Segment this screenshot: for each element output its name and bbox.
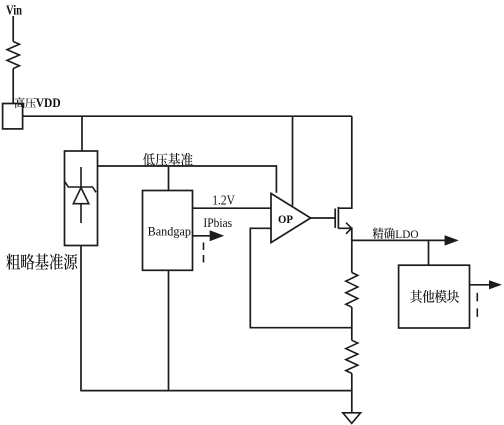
label 其他模块 (410, 290, 459, 303)
label 高压VDD (CJK part) (15, 97, 36, 108)
resistor R1 (346, 273, 358, 308)
wire IPbias output (193, 235, 212, 237)
wire rail to zener box (81, 116, 83, 151)
other module box (399, 265, 470, 328)
mosfet M1 channel bar (337, 207, 339, 229)
dashed bias line (203, 243, 205, 267)
zener diode cathode lead (80, 167, 82, 187)
wire Vin to resistor (12, 16, 14, 42)
mosfet M1 drain lead (338, 116, 351, 208)
wire rail to op-amp power (292, 116, 294, 206)
arrowhead other-module output (489, 280, 502, 289)
VDD box (3, 104, 23, 129)
svg-text:LDO: LDO (395, 227, 419, 241)
zener diode anode lead (80, 204, 82, 223)
mosfet M1 gate bar (334, 209, 336, 228)
ground symbol (343, 413, 361, 424)
svg-text:1.2V: 1.2V (212, 192, 235, 207)
wire resistor to VDD box (12, 69, 14, 104)
arrowhead IPbias (210, 230, 225, 241)
label 粗略基准源 (6, 254, 77, 270)
wire LDO output (352, 239, 445, 241)
wire Bandgap to bottom rail (168, 270, 170, 391)
wire 低压基准 net (98, 166, 277, 193)
resistor R_in (7, 42, 19, 69)
wire to Bandgap top (168, 166, 170, 191)
wire other-module output (470, 284, 490, 286)
wire LDO to other-module box (428, 240, 430, 265)
svg-text:VDD: VDD (36, 96, 61, 110)
wire 1.2V to op-amp (193, 207, 272, 209)
wire source node to R1 (351, 240, 353, 272)
Bandgap box (143, 191, 193, 271)
zener diode bar (65, 182, 96, 193)
svg-text:Vin: Vin (6, 3, 23, 18)
label 精确LDO (CJK part) (373, 228, 395, 240)
op-amp U1 (271, 193, 311, 242)
wire bottom rail (81, 390, 352, 392)
svg-text:Bandgap: Bandgap (148, 224, 191, 238)
mosfet M1 source lead (338, 228, 351, 240)
mosfet M1 source arrow (346, 223, 352, 234)
zener reference box (65, 151, 98, 246)
wire feedback (250, 228, 351, 327)
label 低压基准 (143, 153, 193, 166)
arrowhead LDO output (445, 235, 459, 245)
zener diode triangle (73, 188, 89, 204)
svg-text:OP: OP (278, 212, 293, 226)
wire op-amp output to gate (311, 217, 336, 219)
svg-text:IPbias: IPbias (203, 216, 232, 230)
dashed line below right arrow (476, 293, 478, 318)
wire R2 to ground (351, 373, 353, 412)
resistor R2 (346, 340, 358, 373)
wire top VDD rail (23, 115, 352, 117)
wire zener box to bottom rail (80, 246, 82, 392)
wire R1 to tap (351, 307, 353, 340)
